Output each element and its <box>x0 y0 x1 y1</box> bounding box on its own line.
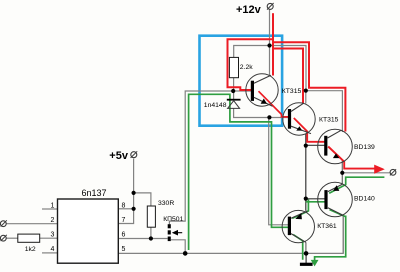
terminal input B <box>0 235 6 241</box>
svg-text:5: 5 <box>122 246 126 253</box>
junction BD140 base node <box>304 197 308 201</box>
wire BD140 base <box>306 198 325 200</box>
svg-text:1: 1 <box>51 202 55 209</box>
wire +12v vertical gray <box>269 10 271 76</box>
resistor 330R <box>147 206 155 227</box>
green output to BD140 emitter <box>329 177 384 193</box>
red inner to KT315-2 collector <box>273 49 303 104</box>
terminal input A <box>0 221 6 227</box>
svg-text:КП501: КП501 <box>163 216 183 223</box>
wire diode bottom to KT315-2 base <box>234 108 288 117</box>
svg-text:7: 7 <box>122 217 126 224</box>
green BD140 collector to ground arrow <box>315 210 346 262</box>
svg-text:1k2: 1k2 <box>25 246 36 253</box>
transistor KT315-1 <box>246 74 278 106</box>
wire pin6 to gate <box>118 238 167 240</box>
green BD140 base <box>306 201 325 203</box>
green net: ground return highlight <box>189 94 288 250</box>
svg-text:+12v: +12v <box>236 4 262 16</box>
wire BD140 collector down <box>342 215 344 253</box>
transistor BD139 <box>318 129 353 164</box>
svg-text:+5v: +5v <box>109 150 129 162</box>
junction source/ground rail node <box>183 251 188 256</box>
red to 2.2k and KT315-1 base <box>228 39 274 90</box>
wire +12v top horizontal gray to 2.2k and right <box>234 46 343 133</box>
green KT361 emitter <box>292 200 308 219</box>
wire pin8 <box>118 208 133 210</box>
wire output node vertical <box>341 161 343 185</box>
junction +5v branch node <box>132 191 136 195</box>
wire pin2 from terminal <box>6 223 57 225</box>
junction output node <box>340 171 344 175</box>
red KT315-2 emitter to BD139 base <box>294 118 325 142</box>
wire +5v vertical <box>133 159 135 209</box>
svg-text:3: 3 <box>51 232 55 239</box>
terminal +12v <box>267 3 273 9</box>
wire 2.2k bottom to base node <box>233 78 235 92</box>
svg-text:BD139: BD139 <box>354 144 375 151</box>
wire pin7 L-shape <box>118 209 133 224</box>
svg-text:6: 6 <box>122 232 126 239</box>
wire mosfet source <box>171 240 185 254</box>
svg-text:2: 2 <box>51 217 55 224</box>
junction Q1 base node <box>231 89 235 93</box>
red KT315-1 emitter to KT315-2 base <box>259 91 289 117</box>
terminal +5v <box>131 152 137 158</box>
wire BD139 base <box>306 144 325 146</box>
red output arrow head <box>374 165 385 174</box>
svg-text:8: 8 <box>122 202 126 209</box>
svg-text:КТ361: КТ361 <box>317 223 337 230</box>
svg-text:КТ315: КТ315 <box>319 116 339 123</box>
junction pin 8 node <box>132 207 136 211</box>
junction Q2 base node <box>267 115 271 119</box>
mosfet KP501 <box>168 224 171 228</box>
transistor KT361 <box>282 210 314 242</box>
red outer staircase to BD139 collector <box>273 42 345 131</box>
svg-text:330R: 330R <box>158 200 174 207</box>
resistor 1k2 <box>18 234 40 242</box>
green ground arrow head <box>311 260 319 267</box>
wire KT361 collector down to ground node <box>305 242 307 253</box>
svg-text:1n4148: 1n4148 <box>204 102 227 109</box>
wire output horizontal to terminal <box>342 172 390 174</box>
ground symbol <box>300 263 313 266</box>
wire KT315-2 collector gray <box>305 91 307 104</box>
junction pin 6 node <box>149 236 153 240</box>
wire KT361 base gray <box>269 118 288 225</box>
junction BD139 base node <box>304 144 308 148</box>
terminal output <box>390 169 396 175</box>
resistor 2.2k <box>229 57 238 77</box>
diode 1n4148 <box>227 99 241 101</box>
wire ground lead <box>305 253 307 263</box>
svg-text:6n137: 6n137 <box>82 188 107 198</box>
selection box (blue) <box>200 36 283 126</box>
svg-text:BD140: BD140 <box>354 195 375 202</box>
red net: +12v highlight vertical <box>272 13 274 75</box>
wire mid rail KT315-2 emitter down to KT361 <box>305 134 307 211</box>
junction +12v rail node <box>267 43 271 47</box>
wire 330R bottom <box>150 227 152 238</box>
svg-text:2.2k: 2.2k <box>240 64 253 71</box>
transistor BD140 <box>318 182 353 217</box>
wire pin1 stub <box>42 208 58 210</box>
svg-text:4: 4 <box>51 246 55 253</box>
transistor KT315-2 <box>283 103 315 135</box>
wire +5v branch to 330R <box>134 193 151 206</box>
wire diode top lead <box>233 91 235 100</box>
red BD139 emitter path to output arrow <box>328 147 375 169</box>
IC 6n137 <box>58 199 119 263</box>
green KT361 collector <box>293 235 303 260</box>
wire pin3 segments <box>6 237 17 239</box>
svg-text:КТ315: КТ315 <box>282 88 302 95</box>
wire pin4 stub <box>42 252 58 254</box>
junction ground node <box>304 251 309 256</box>
junction Q2 collector node <box>304 89 308 93</box>
wire base node to KT315-1 base / left to drain <box>169 91 252 224</box>
wire bottom rail <box>118 252 343 254</box>
